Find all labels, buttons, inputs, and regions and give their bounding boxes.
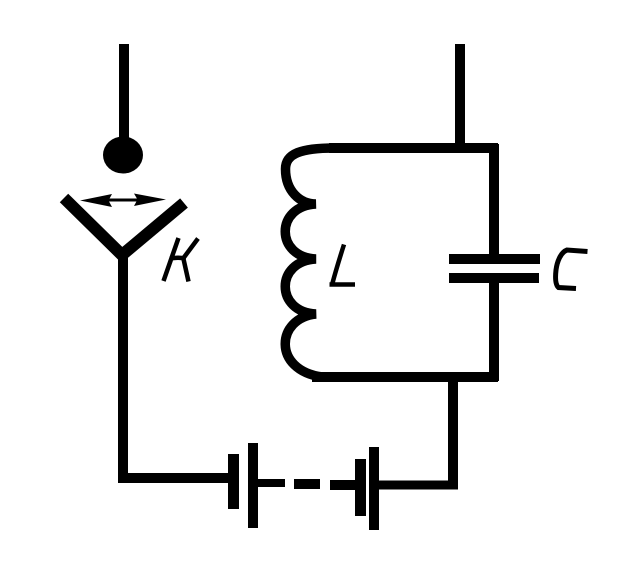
inductor L coil — [285, 148, 338, 377]
wire stub right of cell 1 — [258, 479, 285, 487]
battery cell 1 short plate — [228, 454, 239, 509]
capacitor C bottom plate — [449, 273, 539, 283]
wire right side lower (capacitor to bottom) — [489, 280, 499, 381]
wire bottom left horizontal — [118, 473, 229, 483]
spark gap V electrode K — [64, 198, 184, 255]
battery cell 1 long plate — [248, 443, 258, 528]
label L — [330, 245, 356, 285]
capacitor C top plate — [449, 254, 540, 264]
wire top lead above spark ball — [119, 44, 129, 142]
wire right of battery — [379, 481, 458, 490]
label C — [556, 250, 588, 289]
battery cell 2 short plate — [355, 459, 366, 516]
spark ball electrode — [103, 137, 143, 174]
label K — [164, 238, 199, 282]
dash of dashed battery link — [294, 479, 320, 489]
battery cell 2 long plate — [369, 447, 379, 530]
wire antenna lead at top right — [455, 44, 465, 152]
wire top of tank loop — [329, 143, 498, 153]
wire bottom of tank loop — [312, 372, 498, 382]
wire vertical up from battery to loop bottom — [448, 373, 458, 489]
arrow double-headed vibration arrow — [80, 194, 166, 208]
wire stub left of cell 2 — [330, 480, 356, 490]
wire from spark gap down — [118, 250, 128, 483]
wire right side upper (to capacitor) — [489, 144, 499, 257]
